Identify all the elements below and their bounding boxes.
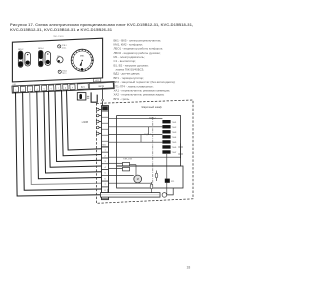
svg-text:ТЭН3: ТЭН3 <box>172 132 177 134</box>
connector upper cell 6 <box>102 141 109 147</box>
connector lower cell 5 <box>102 170 109 176</box>
vertical wire to X3 <box>166 154 168 179</box>
svg-text:ВКЛВ: ВКЛВ <box>99 86 105 88</box>
svg-text:ТЭН1: ТЭН1 <box>172 122 177 124</box>
connector top cell (keyed) <box>102 106 108 110</box>
pin contact 3 <box>96 120 101 123</box>
svg-text:ТЭН-1 ВЗ: ТЭН-1 ВЗ <box>123 159 133 161</box>
connector lower cell 8 <box>102 187 109 193</box>
svg-text:красн.: красн. <box>62 73 67 75</box>
heater terminal ТЭН6 <box>162 145 176 149</box>
oven cabinet boundary (dashed) <box>96 100 193 203</box>
connector lower cell 9 <box>102 193 109 199</box>
svg-text:ВЗД3-4: ВЗД3-4 <box>144 134 150 136</box>
connector upper cell 1 <box>102 111 109 117</box>
wire element to connector <box>107 189 109 193</box>
element end terminal <box>162 193 167 198</box>
heater terminal ТЭН1 <box>162 120 176 124</box>
wires from connector into fan block <box>109 156 181 158</box>
connector lower cell 4 <box>102 164 109 170</box>
connector lower cell 3 <box>102 158 109 164</box>
wire 1 from XP1 to connector <box>16 92 102 196</box>
connector lower cell 7 <box>102 181 109 187</box>
pin contact 4 <box>96 126 101 129</box>
heater terminal ТЭН5 <box>162 140 176 144</box>
power regulator switch ВК1-2 <box>18 49 30 68</box>
wire 4 from XP1 to connector <box>37 91 102 179</box>
wire 9 from XP1 to connector <box>67 90 102 150</box>
power regulator switch ВК3-4 <box>38 48 50 66</box>
tubular heating element <box>101 193 161 198</box>
vertical jog wires <box>148 127 150 135</box>
bracket wire <box>91 92 97 102</box>
svg-text:ТЭН2: ТЭН2 <box>172 127 177 129</box>
fan block box <box>117 166 183 188</box>
svg-text:≈220В: ≈220В <box>81 121 88 124</box>
connector X3 <box>165 179 174 184</box>
svg-text:KVC-D15B12-31, KVC-D15B18-31 и: KVC-D15B12-31, KVC-D15B18-31 и KVC-D15B2… <box>10 27 113 32</box>
svg-text:ТЭН7: ТЭН7 <box>172 152 177 154</box>
connector lower cell 6 <box>102 175 109 181</box>
svg-text:ВК3-4: ВК3-4 <box>38 48 43 50</box>
indicator lamp LSV1 (green) <box>58 45 67 49</box>
svg-text:М: М <box>137 178 139 181</box>
lamp oval 2 <box>150 182 153 193</box>
svg-text:ВК1-2: ВК1-2 <box>18 49 23 51</box>
wire 5 from XP1 to connector <box>44 91 102 173</box>
svg-text:18: 18 <box>187 266 191 270</box>
connector lower cell 1 <box>102 146 109 152</box>
wire 7 from XP1 to connector <box>55 90 102 161</box>
fan motor M1 <box>134 175 142 183</box>
svg-text:ВП1 - гриль.: ВП1 - гриль. <box>114 97 131 101</box>
svg-text:ХЗ1: ХЗ1 <box>171 181 174 183</box>
wire 2 from XP1 to connector <box>23 92 102 191</box>
svg-text:ТЭН4: ТЭН4 <box>172 137 177 139</box>
plug pin wire <box>102 88 104 106</box>
svg-text:зелён.: зелён. <box>62 47 67 49</box>
pin contact 1 <box>96 108 101 111</box>
terminal strip XP1 <box>12 78 114 93</box>
timer clock MV1 <box>71 49 94 71</box>
connector upper cell 2 <box>102 117 109 123</box>
svg-text:ПМ1-2 МВ1: ПМ1-2 МВ1 <box>53 36 65 38</box>
svg-text:ТЭН6: ТЭН6 <box>172 147 177 149</box>
svg-text:ЗВ1: ЗВ1 <box>57 56 60 58</box>
pin contact 2 <box>96 114 101 117</box>
wire 3 from XP1 to connector <box>30 91 102 184</box>
heater terminal ТЭН2 <box>162 125 176 129</box>
heater terminal ТЭН4 <box>162 135 176 139</box>
svg-text:Жарочный шкаф: Жарочный шкаф <box>141 105 162 109</box>
heater block box <box>117 116 181 166</box>
heater terminal ТЭН7 <box>162 150 176 154</box>
right edge stubs <box>180 144 182 159</box>
control panel enclosure box <box>12 38 102 82</box>
wire 8 from XP1 to connector <box>62 90 102 156</box>
heater wiring horizontal lines <box>109 118 163 120</box>
svg-text:ВЗД1-2: ВЗД1-2 <box>149 118 155 120</box>
connector column outline <box>102 106 109 200</box>
connector upper cell 3 <box>102 123 109 129</box>
connector lower cell 2 <box>102 152 109 158</box>
legend text block <box>114 38 176 101</box>
buzzer ZV1 <box>57 56 63 63</box>
lamp oval 1 <box>155 171 158 182</box>
thermal switch contacts <box>123 162 130 166</box>
door lock component <box>77 93 89 100</box>
dash-dot centerline <box>152 117 154 186</box>
svg-text:ХР2: ХР2 <box>95 80 99 82</box>
wire 6 from XP1 to connector <box>49 91 102 168</box>
pin contact 5 <box>96 132 101 135</box>
indicator lamp LSV2 (red) <box>58 70 67 74</box>
wire contacts to motor <box>130 164 137 166</box>
wire element to fan block <box>167 188 174 195</box>
connector upper cell 4 <box>102 129 109 135</box>
connector upper cell 5 <box>102 135 109 141</box>
heater terminal ТЭН3 <box>162 130 176 134</box>
svg-text:ТЭН5: ТЭН5 <box>172 142 177 144</box>
